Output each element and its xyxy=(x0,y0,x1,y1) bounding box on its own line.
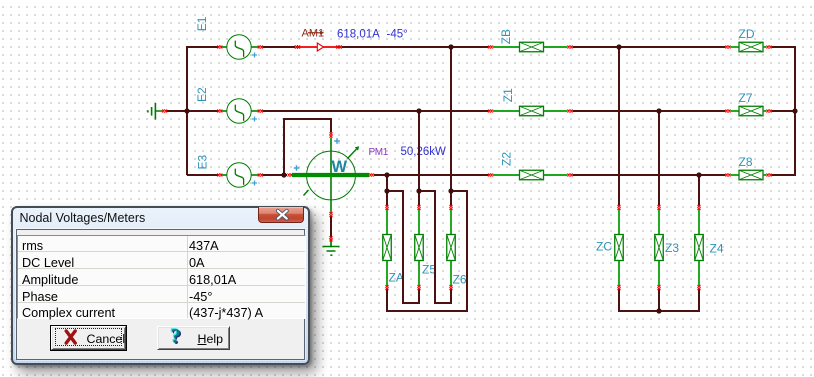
wire zigzag ZA-node to Z5 bottom xyxy=(387,191,419,303)
impedance ZC xyxy=(615,205,624,290)
wire row1 E1 to ammeter xyxy=(263,46,296,48)
node dot row3 x387 xyxy=(384,172,389,177)
wire row3 wattmeter to Z2 xyxy=(374,174,489,176)
node dot left bus row2 xyxy=(184,108,189,113)
wire row3 Z2 to Z8 xyxy=(573,174,726,176)
wire branch x451 row1 to zigzag xyxy=(450,47,452,206)
impedance ZB xyxy=(488,42,573,52)
svg-text:Z3: Z3 xyxy=(665,241,679,255)
wire branch x659 row2 down to Z3 xyxy=(658,111,660,206)
svg-text:Z6: Z6 xyxy=(453,273,467,287)
wire left bus xyxy=(166,47,218,175)
node dot row2 x419 xyxy=(416,108,421,113)
svg-text:-45°: -45° xyxy=(387,29,408,41)
node dot wattmeter tap xyxy=(281,172,286,177)
impedance Z6 xyxy=(447,205,456,290)
svg-text:618,01A: 618,01A xyxy=(337,29,380,41)
impedance Z8 xyxy=(726,170,772,180)
wire zigzag Z6-node to ZA bottom xyxy=(387,191,467,311)
impedance Z5 xyxy=(415,205,424,290)
impedance Z7 xyxy=(726,106,772,116)
svg-text:W: W xyxy=(332,158,348,176)
wire branch x699 row3 down to Z4 xyxy=(698,175,700,206)
impedance Z1 xyxy=(488,106,573,116)
wire row2 Z1 to Z7 xyxy=(573,110,726,112)
wire branch x387 row3 to zigzag xyxy=(386,175,388,206)
wire branch x419 row2 to zigzag xyxy=(418,111,420,206)
wire row1 ZD to right bus corner xyxy=(772,46,797,48)
wire star point ZC Z3 Z4 xyxy=(619,290,699,312)
node dot row1 x451 xyxy=(448,44,453,49)
ammeter AM1 xyxy=(295,43,342,51)
node dot row3 x699 xyxy=(696,172,701,177)
wire row2 Z7 to right bus xyxy=(772,110,797,112)
voltage source E3 xyxy=(217,163,262,187)
svg-text:PM1: PM1 xyxy=(369,147,389,158)
wire row3 E3 to wattmeter xyxy=(263,174,288,176)
node dot zigzag x387 xyxy=(384,188,389,193)
voltage source E2 xyxy=(217,99,262,123)
svg-text:50,26kW: 50,26kW xyxy=(401,146,447,158)
impedance ZA xyxy=(383,205,392,290)
node wattmeter ground terminal xyxy=(329,236,332,241)
wire row3 Z8 to right bus corner xyxy=(772,174,797,176)
svg-text:Z1: Z1 xyxy=(501,88,515,102)
wattmeter PM1 xyxy=(284,119,374,237)
svg-text:ZC: ZC xyxy=(596,239,612,253)
wire row1 ammeter to ZB xyxy=(342,46,489,48)
svg-text:ZB: ZB xyxy=(499,29,513,44)
node dot right bus row2 xyxy=(792,108,797,113)
wire row1 ZB to ZD xyxy=(573,46,726,48)
wire right bus xyxy=(794,46,796,176)
wire zigzag Z5-node to Z6 bottom xyxy=(419,191,451,303)
wire row2 E2 to Z1 xyxy=(263,110,489,112)
svg-text:Z2: Z2 xyxy=(500,152,514,166)
ground under wattmeter xyxy=(323,241,340,256)
node ground-left terminal xyxy=(162,109,167,112)
svg-text:E1: E1 xyxy=(195,16,209,31)
node dot zigzag x419 xyxy=(416,188,421,193)
impedance Z2 xyxy=(488,170,573,180)
node dot star point xyxy=(656,308,661,313)
node dot row1 x619 xyxy=(616,44,621,49)
svg-text:E3: E3 xyxy=(196,154,210,169)
impedance ZD xyxy=(726,42,772,52)
impedance Z3 xyxy=(655,205,664,290)
node dot row2 x659 xyxy=(656,108,661,113)
svg-text:Z8: Z8 xyxy=(739,155,753,169)
svg-text:E2: E2 xyxy=(195,87,209,102)
impedance Z4 xyxy=(695,205,704,290)
ground GND left xyxy=(148,103,163,120)
svg-text:ZA: ZA xyxy=(389,271,404,285)
dialog Nodal Voltages/Meters xyxy=(11,206,310,365)
voltage source E1 xyxy=(217,35,262,59)
wire branch x619 row1 down to ZC xyxy=(618,47,620,206)
svg-text:ZD: ZD xyxy=(739,27,755,41)
node dot zigzag x451 xyxy=(448,188,453,193)
label AM1 xyxy=(302,28,325,40)
svg-text:Z7: Z7 xyxy=(739,91,753,105)
svg-text:Z4: Z4 xyxy=(710,241,724,255)
